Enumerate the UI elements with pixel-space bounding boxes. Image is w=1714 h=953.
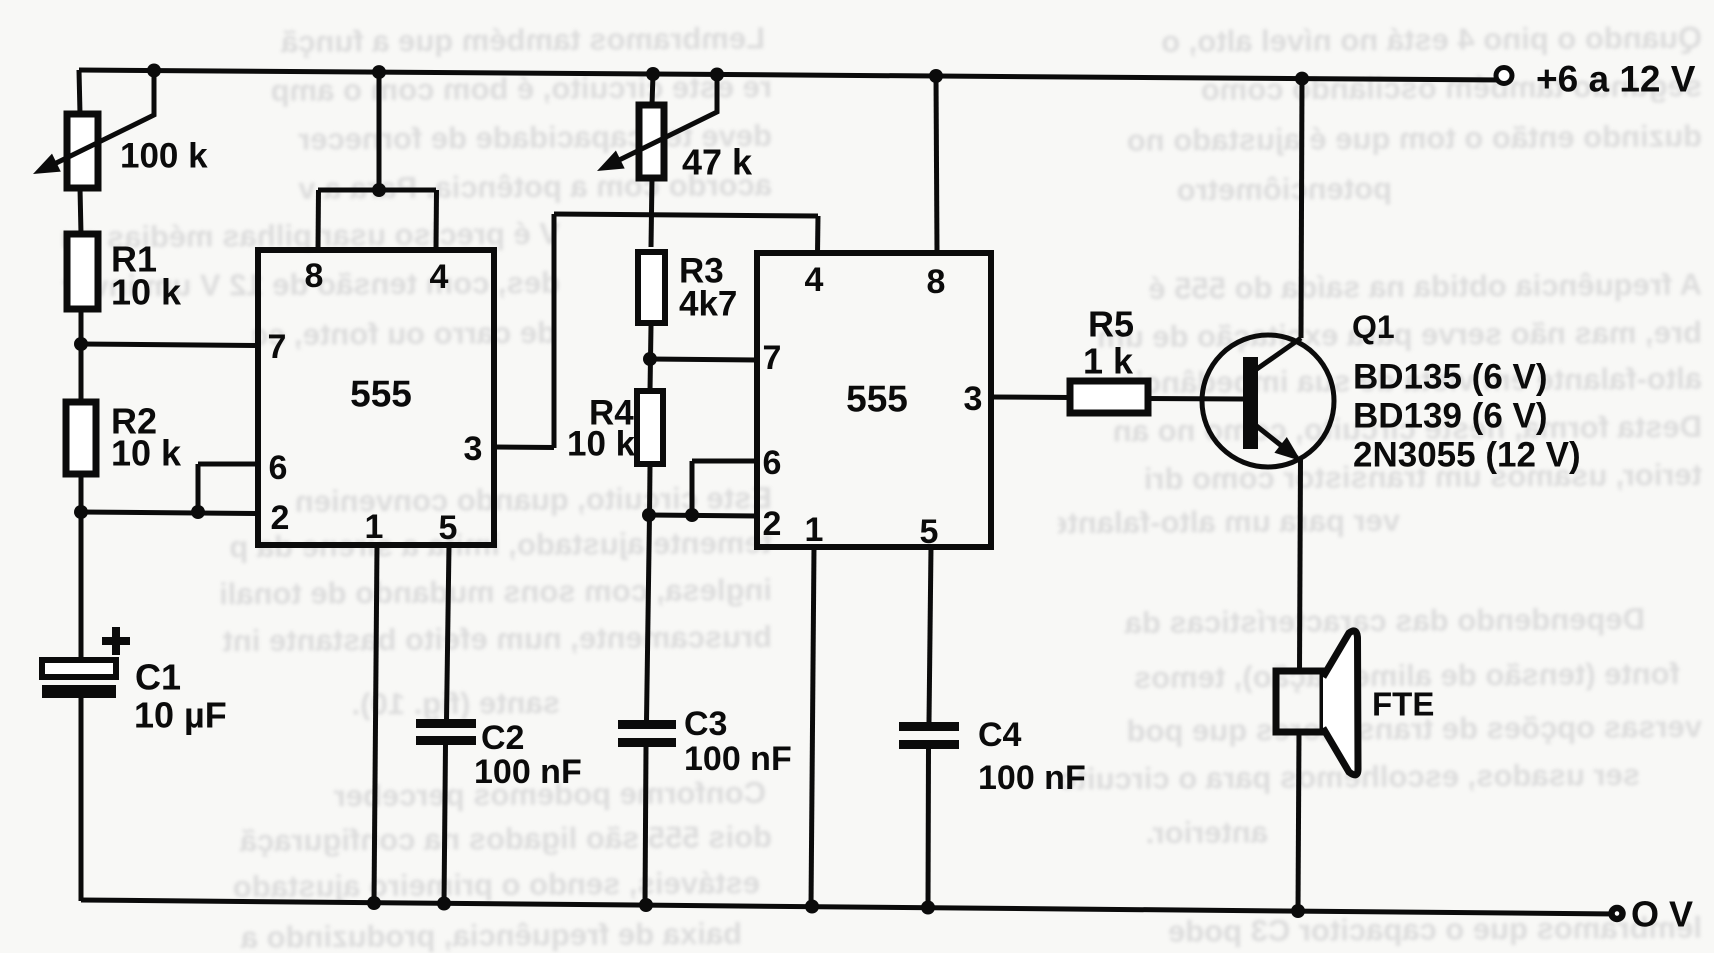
svg-text:4: 4 bbox=[430, 258, 449, 296]
svg-text:C2: C2 bbox=[481, 719, 524, 757]
svg-text:5: 5 bbox=[439, 509, 458, 547]
svg-text:47 k: 47 k bbox=[682, 142, 753, 183]
svg-text:4k7: 4k7 bbox=[679, 285, 737, 324]
svg-text:2: 2 bbox=[271, 499, 290, 537]
svg-text:C3: C3 bbox=[684, 705, 727, 743]
svg-text:8: 8 bbox=[305, 257, 324, 295]
svg-text:2: 2 bbox=[763, 505, 782, 543]
svg-text:3: 3 bbox=[964, 380, 983, 418]
svg-text:BD135 (6 V): BD135 (6 V) bbox=[1353, 358, 1548, 397]
svg-text:6: 6 bbox=[269, 449, 288, 487]
svg-text:5: 5 bbox=[920, 513, 939, 551]
svg-text:Q1: Q1 bbox=[1352, 309, 1395, 345]
svg-text:BD139 (6 V): BD139 (6 V) bbox=[1353, 397, 1548, 436]
svg-text:7: 7 bbox=[763, 339, 782, 377]
svg-text:C4: C4 bbox=[978, 716, 1022, 754]
svg-text:FTE: FTE bbox=[1372, 686, 1434, 723]
svg-text:8: 8 bbox=[927, 263, 946, 301]
svg-text:100 nF: 100 nF bbox=[684, 740, 792, 778]
svg-text:3: 3 bbox=[464, 430, 483, 468]
svg-text:10 k: 10 k bbox=[567, 425, 636, 464]
svg-text:10 k: 10 k bbox=[111, 272, 182, 313]
svg-text:100 nF: 100 nF bbox=[978, 759, 1086, 797]
svg-text:+6 a 12 V: +6 a 12 V bbox=[1536, 59, 1696, 100]
svg-text:O V: O V bbox=[1631, 894, 1693, 935]
svg-text:2N3055 (12 V): 2N3055 (12 V) bbox=[1353, 436, 1581, 475]
svg-text:R5: R5 bbox=[1088, 304, 1134, 345]
svg-text:100 nF: 100 nF bbox=[474, 753, 582, 791]
svg-text:7: 7 bbox=[268, 328, 287, 366]
svg-text:10 k: 10 k bbox=[111, 433, 182, 474]
svg-text:C1: C1 bbox=[135, 657, 181, 698]
svg-text:1 k: 1 k bbox=[1083, 341, 1134, 382]
svg-text:555: 555 bbox=[350, 374, 412, 415]
svg-text:1: 1 bbox=[365, 508, 384, 546]
svg-text:100 k: 100 k bbox=[120, 137, 208, 176]
svg-text:1: 1 bbox=[805, 511, 824, 549]
svg-text:555: 555 bbox=[846, 379, 908, 420]
svg-text:4: 4 bbox=[805, 261, 824, 299]
svg-text:10 µF: 10 µF bbox=[134, 695, 227, 736]
svg-text:6: 6 bbox=[763, 444, 782, 482]
